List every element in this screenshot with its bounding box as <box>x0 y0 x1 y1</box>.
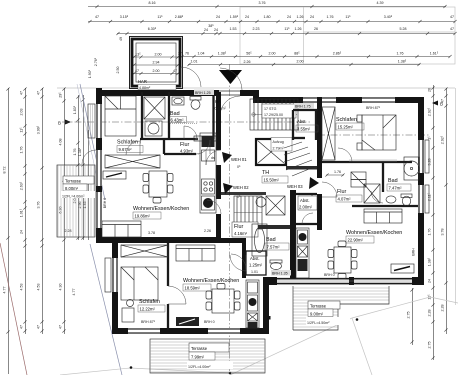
dimension line top row 2 <box>88 15 457 23</box>
svg-text:18.59m²: 18.59m² <box>185 286 201 291</box>
room label TH <box>262 170 288 183</box>
kitchen strip right apartment <box>296 228 309 278</box>
svg-text:2.50: 2.50 <box>116 67 120 74</box>
svg-text:26: 26 <box>314 27 318 31</box>
room label flur right <box>336 189 362 202</box>
svg-text:4.93m²: 4.93m² <box>180 149 194 154</box>
door arc schlafen1 <box>126 141 140 155</box>
column dot bottom <box>267 316 271 320</box>
svg-text:2.86⁵: 2.86⁵ <box>333 52 342 56</box>
wall south right section corners <box>263 277 424 285</box>
svg-text:0.71m²: 0.71m² <box>215 107 227 111</box>
terrace left hatched <box>57 165 95 237</box>
dimension column right 2 <box>441 87 448 334</box>
dining table bottom apartment <box>206 284 240 314</box>
door arc apartment1 entry <box>206 150 221 165</box>
svg-text:24: 24 <box>428 279 432 283</box>
entrance door opening <box>219 91 240 95</box>
sink oval wc bottom <box>270 260 282 270</box>
svg-text:2.26: 2.26 <box>204 229 211 233</box>
wardrobe tall right apartment <box>322 107 335 160</box>
sofa upper-left <box>102 221 141 237</box>
dining table right apartment <box>328 241 357 279</box>
svg-text:TH: TH <box>262 170 269 176</box>
svg-text:1.83⁵: 1.83⁵ <box>73 105 77 114</box>
svg-text:2.26: 2.26 <box>244 60 251 64</box>
HAR room walls <box>130 37 183 89</box>
partition bad east wall / HA <box>212 96 214 139</box>
svg-text:4.88m²: 4.88m² <box>139 86 151 90</box>
boundary line red <box>0 243 27 375</box>
wall jog top <box>253 90 259 103</box>
svg-text:6.43m²: 6.43m² <box>171 118 185 123</box>
svg-text:15.50m²: 15.50m² <box>264 178 280 183</box>
svg-text:1.76: 1.76 <box>428 229 432 236</box>
label aufzug <box>271 138 292 152</box>
shower X bottom bad <box>266 196 285 215</box>
room label schlafen right <box>336 117 364 130</box>
svg-text:Bad: Bad <box>388 178 398 184</box>
svg-text:B: B <box>58 121 61 126</box>
svg-text:6.30⁵: 6.30⁵ <box>148 27 157 31</box>
svg-text:2.79m²: 2.79m² <box>273 147 285 151</box>
svg-text:BRH 0: BRH 0 <box>204 320 215 324</box>
sofa top bottom apartment <box>176 245 215 261</box>
roof outline upper storey <box>240 7 455 64</box>
wall flur south bottom <box>216 238 246 243</box>
svg-text:BRH 1.35: BRH 1.35 <box>272 272 288 276</box>
door arc schlafen right <box>338 148 352 162</box>
wall abst kitchen east <box>290 190 296 278</box>
svg-text:9.67m²: 9.67m² <box>119 147 133 152</box>
svg-text:19.86m²: 19.86m² <box>135 214 151 219</box>
svg-text:2.11⁵: 2.11⁵ <box>428 192 432 201</box>
svg-text:1.04: 1.04 <box>198 52 205 56</box>
svg-text:3.76: 3.76 <box>259 1 266 5</box>
door arc right apartment entry <box>322 182 337 197</box>
svg-text:17 STG: 17 STG <box>264 107 277 111</box>
door arc flur1 to wohnen <box>196 140 210 154</box>
svg-text:11⁵: 11⁵ <box>157 15 163 19</box>
tv sideboard bottom dark <box>176 317 199 326</box>
svg-text:47: 47 <box>37 325 41 329</box>
svg-text:BRH 87⁵: BRH 87⁵ <box>366 106 381 110</box>
dimension line top row 1 <box>88 1 447 8</box>
bed right apartment <box>357 115 396 150</box>
svg-text:1.38⁵: 1.38⁵ <box>218 52 227 56</box>
svg-text:47: 47 <box>173 69 177 73</box>
label WEH 01 <box>222 152 247 169</box>
svg-text:HA: HA <box>215 99 221 104</box>
wardrobe upper-left <box>105 155 160 168</box>
svg-text:4.77: 4.77 <box>72 289 76 296</box>
svg-text:88⁵: 88⁵ <box>294 52 300 56</box>
svg-text:Flur: Flur <box>337 189 346 195</box>
svg-text:56⁵: 56⁵ <box>246 52 252 56</box>
label WEH 03 <box>287 177 319 197</box>
window band south right apartment <box>277 279 412 284</box>
section marker B right <box>432 101 443 107</box>
svg-text:Schlafen: Schlafen <box>336 117 357 123</box>
svg-text:BRH 1.75: BRH 1.75 <box>295 105 311 109</box>
svg-text:1.01⁵: 1.01⁵ <box>20 208 24 217</box>
svg-text:47: 47 <box>20 91 24 95</box>
wall core mid horizontal <box>286 166 322 170</box>
dimension column right 1 <box>428 85 435 360</box>
wall east <box>418 97 424 283</box>
svg-text:Bad: Bad <box>170 111 180 117</box>
svg-text:47: 47 <box>37 91 41 95</box>
window west 1 <box>97 104 102 138</box>
dimension column left 4 <box>59 87 66 334</box>
boundary line blue 3 <box>77 84 100 192</box>
room label schlafen bottom <box>138 299 165 312</box>
dimension column left 5 short spans <box>65 95 89 296</box>
partition schlafen / flur right with radiator <box>322 159 412 162</box>
room label bad right <box>387 178 411 191</box>
window west 3 <box>97 192 102 228</box>
svg-text:1.26: 1.26 <box>297 15 304 19</box>
shower right bad <box>404 157 419 180</box>
svg-text:76: 76 <box>185 52 189 56</box>
dim 2.26 kitchen1 <box>204 229 211 233</box>
svg-text:24: 24 <box>204 28 208 32</box>
window sill marks east <box>425 140 429 213</box>
svg-text:3.78: 3.78 <box>441 229 445 236</box>
svg-text:Schlafen I: Schlafen I <box>117 140 141 146</box>
stair break lines <box>284 142 314 176</box>
tv sideboard upper-left <box>103 171 126 179</box>
svg-text:2.00: 2.00 <box>153 69 160 73</box>
svg-text:8.00m²: 8.00m² <box>65 186 79 191</box>
window west lower apartment <box>105 258 117 292</box>
label BRH 1.25 <box>194 90 214 96</box>
svg-text:4.53: 4.53 <box>20 284 24 291</box>
dimension line top row 4 <box>178 52 452 58</box>
boundary line blue 1 <box>80 84 105 200</box>
window shutter marks west <box>88 104 95 138</box>
svg-text:7.99m²: 7.99m² <box>191 355 205 360</box>
svg-text:Wohnen/Essen/Kochen: Wohnen/Essen/Kochen <box>346 230 402 236</box>
svg-text:2.00: 2.00 <box>155 52 162 56</box>
bed bottom apartment <box>121 267 158 300</box>
dimension column bottom right <box>407 288 414 345</box>
svg-text:8.72: 8.72 <box>3 167 7 174</box>
svg-text:0⁵: 0⁵ <box>237 195 241 199</box>
wall west lower apartment <box>112 243 118 334</box>
window top right 1 <box>303 98 336 103</box>
svg-text:11⁵: 11⁵ <box>284 27 290 31</box>
svg-text:1.76: 1.76 <box>334 170 341 174</box>
dimension column left 2 <box>20 87 27 334</box>
svg-text:Abst.: Abst. <box>250 256 260 261</box>
dimension line top row 3 <box>116 24 456 35</box>
door arc bad bottom <box>231 254 246 269</box>
radiator flur1 <box>194 136 216 141</box>
svg-text:6.30: 6.30 <box>59 207 63 214</box>
tv sideboard right <box>391 264 414 273</box>
wall south bottom apartment <box>112 328 269 334</box>
entrance door swing inner <box>220 96 240 116</box>
svg-text:1.38⁵: 1.38⁵ <box>428 257 432 266</box>
roof overhang line <box>57 88 456 305</box>
svg-text:3.55m²: 3.55m² <box>297 127 311 132</box>
room label wohnen right <box>346 230 402 243</box>
svg-text:8.16: 8.16 <box>149 1 156 5</box>
wall stair core west <box>216 92 221 243</box>
svg-text:2.03: 2.03 <box>20 109 24 116</box>
wall top right section <box>256 97 424 103</box>
door arc bad1 <box>184 126 197 139</box>
svg-text:1.53: 1.53 <box>230 27 237 31</box>
svg-text:3.28: 3.28 <box>428 159 432 166</box>
svg-text:4.30: 4.30 <box>59 284 63 291</box>
svg-text:2.75: 2.75 <box>428 342 432 349</box>
svg-text:9.00m²: 9.00m² <box>310 312 324 317</box>
svg-text:24: 24 <box>214 28 218 32</box>
door arc bad right <box>371 191 383 203</box>
svg-text:Abst: Abst <box>297 119 306 124</box>
svg-text:1.01: 1.01 <box>191 60 198 64</box>
svg-text:47: 47 <box>450 27 454 31</box>
svg-text:49: 49 <box>119 37 123 41</box>
dining table upper-left <box>143 171 173 203</box>
svg-text:7.47m²: 7.47m² <box>389 186 403 191</box>
svg-text:WEH 01: WEH 01 <box>231 157 247 162</box>
svg-text:47: 47 <box>95 15 99 19</box>
svg-text:1.01: 1.01 <box>251 270 258 274</box>
svg-text:WEH 02: WEH 02 <box>233 185 249 190</box>
svg-text:1.76: 1.76 <box>73 149 77 156</box>
wall bad north bottom apartment <box>240 225 296 229</box>
svg-text:4.39: 4.39 <box>377 1 384 5</box>
svg-text:BRH: BRH <box>412 248 416 256</box>
partition schlafen3 / wohnen <box>167 243 169 330</box>
HAR interior dimensions <box>88 37 180 78</box>
svg-text:1.26: 1.26 <box>295 27 302 31</box>
svg-text:2.75: 2.75 <box>407 312 411 319</box>
svg-text:Aufzug: Aufzug <box>273 140 284 144</box>
svg-text:2.88⁵: 2.88⁵ <box>175 15 184 19</box>
abst 1.25 room <box>246 251 266 275</box>
svg-text:2.92⁵: 2.92⁵ <box>441 135 445 144</box>
toilet bad right <box>401 194 412 206</box>
terrace right hatched <box>293 286 389 330</box>
svg-text:Wohnen/Essen/Kochen: Wohnen/Essen/Kochen <box>133 206 189 212</box>
wall bad west bottom apartment <box>242 243 246 278</box>
svg-text:Terrasse: Terrasse <box>310 304 327 309</box>
label WEH 02 <box>223 183 249 199</box>
svg-text:17.29/25.00: 17.29/25.00 <box>264 113 283 117</box>
svg-text:1/2FL=4.00m²: 1/2FL=4.00m² <box>62 195 85 199</box>
wardrobe small right <box>364 184 380 203</box>
svg-text:3.15⁵: 3.15⁵ <box>120 15 129 19</box>
room label HAR <box>138 79 176 90</box>
svg-text:Flur: Flur <box>234 224 243 230</box>
sink bottom bad <box>256 197 266 207</box>
door arc schlafen3 <box>168 286 186 304</box>
kitchen bottom apartment <box>246 280 259 328</box>
svg-text:Bad: Bad <box>266 237 276 243</box>
svg-text:0⁵: 0⁵ <box>237 165 241 169</box>
door arc abst 2.00 <box>302 213 313 224</box>
svg-text:2.92⁵: 2.92⁵ <box>428 107 432 116</box>
door arc terrace upper-left <box>82 150 96 164</box>
entrance door swing <box>220 68 242 90</box>
bathtub bottom bad <box>252 224 267 256</box>
svg-text:1/2FL=4.50m²: 1/2FL=4.50m² <box>307 321 330 325</box>
svg-text:29⁵: 29⁵ <box>59 92 63 98</box>
svg-text:B: B <box>440 102 443 107</box>
svg-text:Wohnen/Essen/Kochen: Wohnen/Essen/Kochen <box>183 278 239 284</box>
window south bottom 1 <box>128 329 160 334</box>
svg-text:3.78: 3.78 <box>148 231 155 235</box>
svg-text:Abst.: Abst. <box>300 198 310 203</box>
svg-text:7.57m²: 7.57m² <box>267 245 281 250</box>
label BRH 1.35 <box>271 270 291 276</box>
svg-text:2.94: 2.94 <box>153 60 160 64</box>
svg-text:1.76: 1.76 <box>397 52 404 56</box>
toilet bad1 <box>190 97 201 110</box>
elevator <box>256 139 286 165</box>
svg-text:2.00: 2.00 <box>297 60 304 64</box>
svg-text:2.23: 2.23 <box>253 27 260 31</box>
svg-text:BRH 0: BRH 0 <box>103 198 107 209</box>
wall stair core east / right apartment west <box>317 97 322 230</box>
svg-text:22.90m²: 22.90m² <box>348 238 364 243</box>
svg-text:26: 26 <box>428 88 432 92</box>
door arc HAR exterior <box>181 67 201 87</box>
svg-text:47: 47 <box>20 325 24 329</box>
svg-text:4.07m²: 4.07m² <box>338 197 352 202</box>
partition schlafen1 / bad <box>140 92 198 154</box>
svg-text:4.16m²: 4.16m² <box>234 231 248 236</box>
desk chair bottom apartment <box>122 300 134 323</box>
room label bad bottom <box>265 237 289 250</box>
vertical center axis <box>229 64 231 374</box>
svg-text:2.28: 2.28 <box>428 310 432 317</box>
svg-text:BRH 1.25: BRH 1.25 <box>195 91 211 95</box>
window west 2 <box>97 150 102 186</box>
wall top middle section <box>240 90 259 96</box>
svg-text:2.28: 2.28 <box>441 305 445 312</box>
wall east bottom apartment <box>263 283 269 334</box>
sofa right apartment <box>364 209 402 223</box>
door arc apartment2 entry <box>207 200 221 214</box>
svg-text:Schlafen: Schlafen <box>139 299 160 305</box>
room label abst 2.00 <box>298 196 317 210</box>
svg-text:11⁵: 11⁵ <box>345 15 351 19</box>
svg-text:12.22m²: 12.22m² <box>140 307 156 312</box>
svg-text:2.28: 2.28 <box>65 229 72 233</box>
svg-text:WEH 03: WEH 03 <box>287 184 303 189</box>
room label HA <box>215 99 227 111</box>
staircase label 17 STG <box>262 104 296 118</box>
svg-text:3.40⁵: 3.40⁵ <box>384 15 393 19</box>
window east 2 <box>419 185 424 213</box>
terrace bottom hatched <box>150 339 265 373</box>
sink bad1 <box>172 97 184 105</box>
svg-text:5.28: 5.28 <box>400 27 407 31</box>
svg-text:BRH 87⁵: BRH 87⁵ <box>141 320 156 324</box>
svg-text:HAR: HAR <box>138 79 147 84</box>
wall west upper apartment <box>96 88 102 243</box>
svg-text:4.08: 4.08 <box>59 139 63 146</box>
staircase lower run <box>234 196 262 229</box>
dimension line top row 5 partial <box>187 60 420 66</box>
boundary point dots <box>130 318 359 374</box>
svg-text:1.38⁵: 1.38⁵ <box>78 147 82 156</box>
svg-text:3.76: 3.76 <box>37 202 41 209</box>
room label flur core <box>232 222 258 237</box>
svg-text:4.53: 4.53 <box>37 284 41 291</box>
wall west step <box>96 237 119 243</box>
washer dryer stack right <box>351 172 366 187</box>
room label bad1 <box>170 111 198 124</box>
svg-text:11⁵: 11⁵ <box>428 294 432 300</box>
entrance arrow triangle <box>219 70 242 84</box>
window south bottom 2 <box>208 329 240 334</box>
partition bad west wall <box>168 92 170 139</box>
svg-text:Terrasse: Terrasse <box>191 346 208 351</box>
closet with X <box>144 97 165 119</box>
svg-text:1.76: 1.76 <box>20 147 24 154</box>
property boundary polygon <box>60 297 458 375</box>
section marker B left <box>58 120 71 126</box>
svg-text:24: 24 <box>287 15 291 19</box>
section axis line B horizontal <box>62 121 312 123</box>
dim 1.76 flur right <box>325 170 344 177</box>
room label flur1 <box>180 142 199 154</box>
label BRH 1.75 <box>294 103 314 109</box>
abst 2.00 room walls <box>296 194 317 224</box>
room label schlafen I <box>117 140 143 153</box>
svg-text:1⁵: 1⁵ <box>428 136 432 140</box>
kitchen counter upper-left <box>200 133 216 213</box>
bed axis line right apartment <box>318 134 430 136</box>
svg-text:24: 24 <box>216 15 220 19</box>
svg-text:24: 24 <box>20 230 24 234</box>
svg-text:24: 24 <box>310 15 314 19</box>
washing machine bad1 <box>145 121 162 136</box>
room label wohnen upper-left <box>133 206 189 219</box>
partition flur / bad right <box>352 162 418 206</box>
svg-text:1.59⁵: 1.59⁵ <box>230 15 239 19</box>
svg-text:3.99⁵: 3.99⁵ <box>37 125 41 134</box>
wall between upper and lower apartments <box>118 237 221 243</box>
svg-text:1/2FL=4.00m²: 1/2FL=4.00m² <box>188 365 211 369</box>
svg-text:1.76: 1.76 <box>327 15 334 19</box>
svg-text:2.63⁵: 2.63⁵ <box>20 181 24 190</box>
wall stair core south <box>221 192 266 195</box>
dimension column left 1 <box>3 87 10 374</box>
svg-text:47: 47 <box>135 69 139 73</box>
svg-text:2.96: 2.96 <box>78 202 82 209</box>
svg-text:47: 47 <box>59 325 63 329</box>
door arc flur to wohnen bottom <box>230 255 246 271</box>
svg-text:15.25m²: 15.25m² <box>338 125 354 130</box>
svg-text:2.00: 2.00 <box>269 52 276 56</box>
svg-text:24: 24 <box>245 15 249 19</box>
svg-text:2.76⁵: 2.76⁵ <box>94 57 98 66</box>
svg-text:2.00m²: 2.00m² <box>299 205 313 210</box>
boundary line blue 2 <box>90 244 122 375</box>
svg-text:1.93⁵: 1.93⁵ <box>88 69 92 78</box>
bed upper-left <box>105 96 136 136</box>
svg-text:11⁵: 11⁵ <box>20 127 24 133</box>
abst room top walls <box>293 110 318 140</box>
svg-text:1.61⁵: 1.61⁵ <box>430 52 439 56</box>
